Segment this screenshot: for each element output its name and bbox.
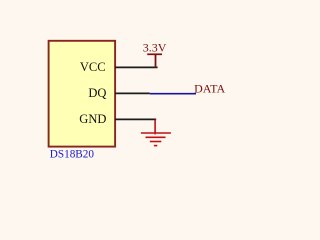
- svg-text:VCC: VCC: [80, 60, 106, 74]
- svg-text:DS18B20: DS18B20: [50, 148, 95, 160]
- svg-text:GND: GND: [79, 112, 106, 126]
- svg-text:DATA: DATA: [194, 81, 225, 95]
- svg-text:DQ: DQ: [88, 86, 106, 100]
- svg-text:3.3V: 3.3V: [143, 41, 167, 55]
